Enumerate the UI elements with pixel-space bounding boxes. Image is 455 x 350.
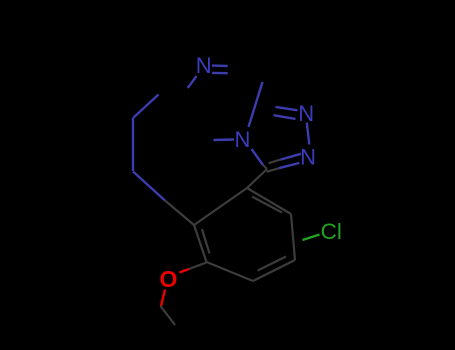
wire bond to Cl green stub (303, 235, 320, 241)
wire C-O bond red half (180, 269, 190, 273)
wire C-O bond gray half (189, 263, 207, 270)
wire pyrazine lower-left edge gray half to phenyl B (165, 201, 194, 226)
wire phenyl edge F-A (247, 188, 291, 214)
wire O-CH2 bond red half (161, 290, 165, 307)
wire C8a=N1 double bond upper line (276, 107, 298, 110)
wire N1-N2 bond (307, 123, 310, 145)
wire N2=C3 double bond upper line blue half (281, 154, 302, 160)
svg-text:N: N (196, 53, 212, 78)
wire phenyl edge F-A inner aromatic line (252, 197, 282, 213)
wire phenyl edge D-E inner aromatic line (258, 257, 286, 271)
svg-text:Cl: Cl (321, 219, 342, 244)
wire N5=C6 double bond upper line (212, 64, 228, 67)
svg-text:N: N (298, 101, 314, 126)
wire N4-C3 bond gray half (263, 165, 267, 169)
wire pyrazine lower-left edge blue half (133, 172, 165, 201)
wire phenyl edge E-F (291, 214, 295, 260)
wire phenyl edge D-E (253, 260, 295, 281)
svg-text:N: N (300, 144, 316, 169)
wire pyrazine left vertical edge L1-L2 (132, 118, 134, 171)
wire C3 to phenyl A bond (247, 169, 267, 188)
wire bond N4 to C8a (249, 82, 263, 127)
wire N4-C3 bond blue half (252, 149, 264, 165)
wire N5=C6 double bond lower line (212, 72, 228, 75)
wire pyrazine edge T-L1 (133, 95, 159, 119)
wire methyl tail gray (161, 306, 176, 325)
wire phenyl edge B-C (194, 225, 207, 262)
wire phenyl edge C-D (207, 262, 254, 281)
wire N2=C3 double bond upper line gray half (269, 160, 281, 164)
wire horizontal stub into bridgehead N4 (214, 138, 235, 141)
wire N2=C3 double bond lower line blue half (279, 163, 300, 168)
wire C8a=N1 double bond lower line (274, 115, 296, 119)
wire phenyl edge A-B (194, 188, 247, 225)
wire phenyl edge B-C inner aromatic line (202, 229, 210, 253)
svg-text:N: N (234, 127, 250, 152)
svg-text:O: O (160, 266, 178, 292)
wire N5 stub down-left (188, 76, 197, 88)
wire N2=C3 double bond lower line gray half (267, 168, 280, 172)
